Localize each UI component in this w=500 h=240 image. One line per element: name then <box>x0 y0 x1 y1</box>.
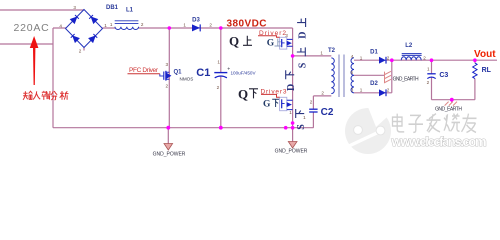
svg-text:GND_EARTH: GND_EARTH <box>435 107 462 113</box>
svg-text:100uF/450V: 100uF/450V <box>230 70 256 75</box>
svg-text:1: 1 <box>217 60 220 65</box>
svg-text:D: D <box>286 84 297 91</box>
svg-text:D: D <box>298 32 309 39</box>
svg-text:GND_POWER: GND_POWER <box>275 149 308 155</box>
svg-text:1: 1 <box>427 67 430 72</box>
svg-text:2: 2 <box>387 56 390 61</box>
svg-text:2: 2 <box>79 48 82 53</box>
svg-text:www.elecfans.com: www.elecfans.com <box>391 134 487 149</box>
svg-text:G: G <box>263 99 271 109</box>
svg-text:Q: Q <box>238 87 248 102</box>
svg-text:S: S <box>297 62 308 68</box>
svg-text:1: 1 <box>183 23 186 28</box>
svg-text:DB1: DB1 <box>106 5 119 11</box>
svg-text:G: G <box>267 38 275 48</box>
svg-text:D2: D2 <box>370 81 378 87</box>
svg-text:Vout: Vout <box>474 49 496 60</box>
svg-text:Q1: Q1 <box>173 70 182 76</box>
svg-text:Driver2: Driver2 <box>259 30 286 37</box>
svg-text:3: 3 <box>285 33 288 38</box>
svg-text:2: 2 <box>423 56 426 61</box>
svg-text:220AC: 220AC <box>13 22 49 34</box>
svg-text:1: 1 <box>110 22 113 27</box>
svg-text:2: 2 <box>427 80 430 85</box>
svg-text:NMOS: NMOS <box>180 76 194 81</box>
svg-text:2: 2 <box>387 87 390 92</box>
svg-text:1: 1 <box>289 110 292 115</box>
svg-text:C3: C3 <box>439 72 448 79</box>
svg-text:2: 2 <box>217 85 220 90</box>
svg-text:2: 2 <box>209 23 212 28</box>
svg-text:1: 1 <box>320 51 323 56</box>
svg-text:5: 5 <box>351 70 354 75</box>
svg-text:L2: L2 <box>405 43 413 49</box>
svg-text:4: 4 <box>59 24 62 29</box>
svg-text:2: 2 <box>166 84 169 89</box>
svg-text:S: S <box>296 124 307 130</box>
svg-text:4: 4 <box>351 54 354 59</box>
svg-text:T2: T2 <box>328 48 336 54</box>
svg-text:3: 3 <box>351 87 354 92</box>
svg-text:Q: Q <box>229 34 239 49</box>
svg-text:D3: D3 <box>192 17 200 23</box>
svg-text:1: 1 <box>360 56 363 61</box>
svg-text:Driver3: Driver3 <box>261 88 287 95</box>
svg-text:L1: L1 <box>126 8 134 14</box>
svg-text:380VDC: 380VDC <box>227 18 267 29</box>
svg-text:GND_POWER: GND_POWER <box>153 151 186 157</box>
svg-text:3: 3 <box>73 5 76 10</box>
svg-text:C2: C2 <box>321 107 334 118</box>
svg-text:RL: RL <box>482 67 492 74</box>
svg-text:2: 2 <box>321 90 324 95</box>
svg-text:C1: C1 <box>196 67 210 79</box>
svg-text:GND_EARTH: GND_EARTH <box>393 77 419 83</box>
svg-text:1: 1 <box>360 87 363 92</box>
svg-text:PFC Driver: PFC Driver <box>129 67 159 74</box>
svg-text:1: 1 <box>104 23 107 28</box>
svg-text:2: 2 <box>141 22 144 27</box>
svg-text:2: 2 <box>310 99 313 104</box>
svg-text:1: 1 <box>303 115 306 120</box>
svg-text:D1: D1 <box>370 49 378 55</box>
svg-text:3: 3 <box>166 62 169 67</box>
